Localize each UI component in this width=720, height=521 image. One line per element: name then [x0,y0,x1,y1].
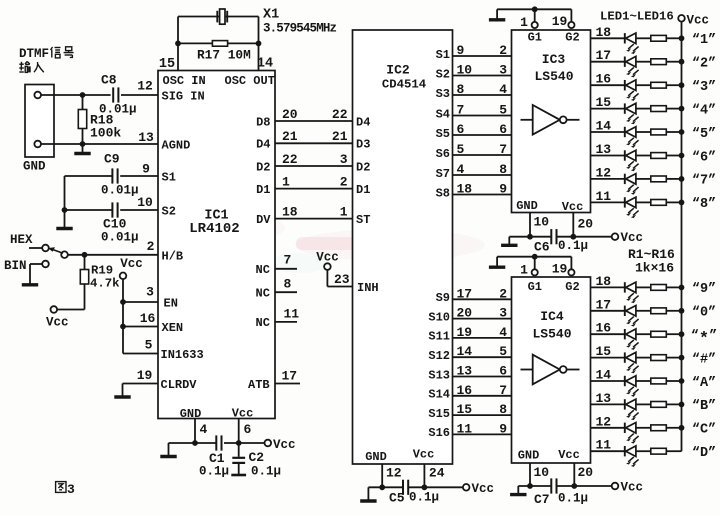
resistor R18 [82,95,84,110]
IC IC2 CD4514 body [353,30,453,464]
wire LED4 to R4 [636,108,651,110]
connector bottom terminal [34,141,41,148]
svg-text:20: 20 [578,217,594,232]
wire HEX contact stub [29,247,42,249]
svg-text:S1: S1 [162,171,176,185]
LED LED6 [624,150,626,160]
svg-text:13: 13 [457,364,473,379]
svg-text:2: 2 [340,174,348,189]
wire R10 to Vcc bus [666,310,681,312]
svg-text:11: 11 [457,421,473,436]
resistor R16 [651,448,667,454]
svg-text:S2: S2 [436,67,450,81]
wire IC output pin 17 row 2 [591,61,625,63]
wire pin 4 vertical [194,419,196,444]
Vcc terminal right of C1 [265,440,272,447]
svg-text:10: 10 [457,63,473,78]
svg-text:S14: S14 [428,388,450,402]
svg-text:“7”: “7” [692,174,716,189]
wire BIN stub [30,263,42,265]
svg-text:D8: D8 [256,115,270,129]
wire OSC OUT vertical pin 14 [258,17,260,71]
svg-text:14: 14 [596,368,612,383]
svg-text:15: 15 [596,95,612,110]
junction R18 bottom [80,141,86,147]
wire CLRDV line [123,383,159,385]
svg-text:21: 21 [332,129,348,144]
ground for decoupling [517,486,519,494]
inverter symbol bubble [560,116,567,123]
wire C5 horizontal left [368,486,402,488]
svg-text:16: 16 [596,72,612,87]
junction left of R17 [175,41,181,47]
label figure 3 (Chinese, hand-drawn) [56,482,66,493]
inverter symbol output line [567,119,580,121]
resistor R15 [651,425,667,431]
svg-text:22: 22 [332,107,348,122]
wire G1 vertical [534,9,536,21]
resistor R7 [651,176,667,182]
ground below R18 [82,144,84,153]
svg-text:4: 4 [200,422,208,437]
wire LED7 to R7 [636,178,651,180]
svg-text:S3: S3 [436,87,450,101]
wire R1 to Vcc bus [666,37,681,39]
svg-text:5: 5 [499,344,507,359]
svg-text:“4”: “4” [692,103,716,118]
svg-text:LED1~LED16: LED1~LED16 [600,10,674,24]
svg-text:“C”: “C” [692,423,716,438]
wire IC output pin 11 row 8 [591,201,625,203]
junction Vcc pin [571,483,577,489]
svg-text:19: 19 [552,262,568,277]
Vcc terminal for EN [120,273,127,280]
LED LED12 [624,352,626,362]
wire R6 to Vcc bus [666,155,681,157]
wire R2 to Vcc bus [666,61,681,63]
wire NC stub pin 11 [275,321,297,323]
wire decoupling horizontal left [518,485,551,487]
svg-text:S9: S9 [436,291,450,305]
svg-text:Vcc: Vcc [562,200,584,214]
svg-text:“3”: “3” [692,80,716,95]
svg-text:HEX: HEX [10,233,33,247]
junction R12 at Vcc bus [679,355,685,361]
svg-text:22: 22 [282,152,298,167]
svg-text:S5: S5 [436,127,450,141]
svg-text:Vcc: Vcc [120,257,143,271]
wire Vcc pin vertical [572,213,574,237]
wire S14 line [453,395,512,397]
svg-text:S7: S7 [436,167,450,181]
wire S10 line [453,318,512,320]
svg-text:NC: NC [256,287,270,301]
wire S4 line [453,115,512,117]
svg-text:3: 3 [67,482,75,497]
LED LED14 [624,399,626,409]
svg-text:0.01μ: 0.01μ [101,184,139,198]
svg-text:S15: S15 [428,407,450,421]
wire D2-D2 data line [275,165,353,167]
svg-text:11: 11 [596,189,612,204]
svg-text:100k: 100k [90,126,121,141]
svg-text:11: 11 [596,438,612,453]
svg-text:7: 7 [284,253,292,268]
svg-text:G2: G2 [565,280,579,294]
wire LED12 to R12 [636,357,651,359]
svg-text:G1: G1 [528,280,542,294]
svg-text:“D”: “D” [692,446,716,461]
capacitor C9 [111,168,113,183]
svg-text:3: 3 [146,285,154,300]
wire SIG IN line right part [121,94,158,96]
wire R3 to Vcc bus [666,84,681,86]
svg-text:6: 6 [499,364,507,379]
wire INH vertical [326,270,328,287]
IC IC4 LS540 body [512,277,591,463]
Vcc terminal for decoupling [612,483,619,490]
wire G1/G2 enable line [497,256,571,258]
junction S2 line [62,207,68,213]
svg-text:13: 13 [138,130,154,145]
wire Vcc pin vertical [573,463,575,486]
wire S12 line [453,356,512,358]
wire IC output pin 18 row 1 [591,37,625,39]
svg-text:OSC IN: OSC IN [163,74,206,88]
wire S11 line [453,337,512,339]
junction R19 top [82,252,88,258]
wire G2 vertical [570,257,572,269]
svg-text:1: 1 [282,174,290,189]
wire S2 line right part [120,209,158,211]
wire XEN line [123,326,158,328]
resistor R14 [651,402,667,408]
wire C1 horizontal right [224,442,265,444]
svg-text:20: 20 [282,107,298,122]
svg-text:Vcc: Vcc [232,407,254,421]
svg-text:INH: INH [357,281,379,295]
svg-text:0.1μ: 0.1μ [199,465,229,479]
svg-text:Vcc: Vcc [621,231,644,245]
wire IC2 pin 12 vertical [381,464,383,487]
wire IC output pin 16 row 3 [591,84,625,86]
wire R5 to Vcc bus [666,131,681,133]
svg-text:15: 15 [159,57,175,72]
svg-text:3: 3 [340,152,348,167]
svg-text:C5: C5 [389,491,405,506]
Vcc terminal top right [678,15,685,22]
LED LED9 [624,282,626,292]
junction R3 at Vcc bus [679,82,685,88]
wire C5 horizontal right [409,486,463,488]
svg-text:IC4: IC4 [540,309,564,324]
capacitor C10 [111,202,113,217]
resistor R19 [84,255,86,270]
wire LED16 to R16 [636,450,651,452]
svg-text:4.7k: 4.7k [90,277,120,291]
wire S1 line [453,55,512,57]
junction R14 at Vcc bus [679,402,685,408]
svg-text:19: 19 [552,14,568,29]
ground below S1/S2 [64,226,66,229]
junction Vcc pin [570,234,576,240]
svg-text:9: 9 [457,43,465,58]
junction pin6 [236,440,242,446]
junction R2 at Vcc bus [679,59,685,65]
junction XEN [120,324,126,330]
svg-text:ST: ST [356,213,370,227]
svg-text:IC2: IC2 [386,63,410,78]
wire IN1633 line [123,353,158,355]
wire DV-ST data line [275,218,353,220]
svg-text:17: 17 [457,286,473,301]
svg-text:C2: C2 [249,450,265,465]
svg-text:“1”: “1” [692,33,716,48]
junction pin4 [192,440,198,446]
svg-text:OSC OUT: OSC OUT [225,74,275,88]
svg-text:S13: S13 [428,368,450,382]
wire G1/G2 enable line [497,8,571,10]
svg-text:19: 19 [137,368,153,383]
capacitor C5 [402,480,404,495]
svg-text:GND: GND [516,199,538,213]
resistor R9 [651,285,667,291]
svg-text:SIG IN: SIG IN [162,90,205,104]
wire LED5 to R5 [636,131,651,133]
wire ATB stub [275,383,300,385]
svg-text:3.579545MHz: 3.579545MHz [263,22,337,36]
svg-text:6: 6 [499,122,507,137]
svg-text:D4: D4 [256,138,270,152]
G2 inverting pin circle [568,22,574,28]
junction R11 at Vcc bus [679,331,685,337]
svg-text:Vcc: Vcc [558,448,580,462]
wire Vcc-EN vertical [122,279,124,353]
wire LED10 to R10 [636,310,651,312]
wire IC output pin 13 row 14 [591,403,625,405]
wire IC output pin 18 row 9 [591,286,625,288]
svg-text:G2: G2 [565,31,579,45]
svg-text:D4: D4 [356,115,370,129]
junction GND pin [527,234,533,240]
svg-text:IC3: IC3 [542,52,566,67]
svg-text:DV: DV [256,213,271,227]
svg-text:12: 12 [596,414,612,429]
resistor R3 [651,82,667,88]
resistor R8 [651,200,667,206]
wire S6 line [453,154,512,156]
svg-text:8: 8 [284,277,292,292]
Vcc terminal for decoupling [612,233,619,240]
svg-text:3: 3 [499,306,507,321]
G1 inverting pin circle [532,22,538,28]
svg-text:G1: G1 [528,31,542,45]
svg-text:Vcc: Vcc [273,438,296,452]
wire SIG IN line left part [41,94,111,96]
wire IC output pin 14 row 5 [591,131,625,133]
wire NC stub pin 7 [275,268,297,270]
wire CLRDV down [122,384,124,396]
inverter symbol bubble [560,366,567,373]
svg-text:10: 10 [137,195,153,210]
crystal X1 [216,11,218,23]
resistor R17 [212,41,227,47]
capacitor C2 (to ground) [238,443,240,457]
svg-text:12: 12 [596,165,612,180]
svg-text:13: 13 [596,391,612,406]
wire R12 to Vcc bus [666,357,681,359]
svg-text:“5”: “5” [692,127,716,142]
svg-text:0.1μ: 0.1μ [558,492,588,506]
svg-text:CD4514: CD4514 [382,78,427,92]
svg-text:C7: C7 [534,492,550,507]
svg-text:9: 9 [142,162,150,177]
wire R7 to Vcc bus [666,178,681,180]
ground for decoupling [508,237,510,245]
svg-text:Vcc: Vcc [413,448,435,462]
junction R15 at Vcc bus [679,425,685,431]
LED LED10 [624,306,626,316]
svg-text:S12: S12 [428,349,450,363]
wire R14 to Vcc bus [666,403,681,405]
LED LED11 [624,329,626,339]
svg-text:2: 2 [499,43,507,58]
svg-text:LS540: LS540 [534,69,573,84]
junction R8 at Vcc bus [679,200,685,206]
capacitor C1 [215,435,217,450]
wire Vcc bus vertical [681,22,683,452]
svg-text:“A”: “A” [692,376,716,391]
svg-text:9: 9 [499,182,507,197]
inverter symbol triangle [533,105,560,135]
svg-text:C6: C6 [534,240,550,255]
svg-text:5: 5 [499,103,507,118]
svg-text:NC: NC [256,263,270,277]
svg-text:D2: D2 [256,160,270,174]
svg-text:S4: S4 [436,107,450,121]
resistor R1 [651,35,667,41]
wire IC output pin 16 row 11 [591,333,625,335]
svg-text:14: 14 [457,344,473,359]
svg-text:H/B: H/B [162,250,184,264]
wire LED11 to R11 [636,333,651,335]
junction R1 at Vcc bus [679,35,685,41]
wire IC output pin 15 row 4 [591,108,625,110]
wire LED1 to R1 [636,37,651,39]
svg-text:R17 10M: R17 10M [197,48,251,63]
ground below CLRDV [122,395,124,398]
ground left of C5 [367,487,369,500]
svg-text:2: 2 [147,239,155,254]
wire LED9 to R9 [636,286,651,288]
connector top terminal [34,92,41,99]
IC IC1 LR4102 body [158,71,275,419]
wire IC output pin 13 row 6 [591,155,625,157]
svg-text:Vcc: Vcc [472,482,495,496]
capacitor C6 [550,229,552,244]
wire S1 line left part [65,175,113,177]
wire R16 to Vcc bus [666,450,681,452]
svg-text:14: 14 [257,57,273,72]
junction R5 at Vcc bus [679,129,685,135]
svg-text:5: 5 [145,338,153,353]
svg-text:10: 10 [534,465,550,480]
svg-text:7: 7 [457,103,465,118]
wire R15 to Vcc bus [666,427,681,429]
svg-text:6: 6 [244,422,252,437]
resistor R5 [651,129,667,135]
svg-text:4: 4 [499,82,507,97]
svg-text:3: 3 [499,63,507,78]
svg-text:8: 8 [499,402,507,417]
svg-text:9: 9 [499,421,507,436]
svg-text:“6”: “6” [692,150,716,165]
svg-text:5: 5 [457,142,465,157]
wire S2 line [453,75,512,77]
wire GND pin vertical [529,463,531,486]
LED LED8 [624,197,626,207]
wire S7 line [453,174,512,176]
wire OSC IN vertical pin 15 [177,17,179,71]
wire S15 line [453,414,512,416]
svg-text:19: 19 [457,325,473,340]
wire IC output pin 12 row 15 [591,427,625,429]
svg-text:6: 6 [457,122,465,137]
svg-text:14: 14 [596,119,612,134]
svg-text:4: 4 [457,162,465,177]
svg-text:7: 7 [499,142,507,157]
inverter symbol input line [521,369,533,371]
svg-text:X1: X1 [263,8,279,23]
ground for enable line [496,257,498,267]
svg-text:D1: D1 [256,183,270,197]
svg-text:R19: R19 [91,264,113,278]
svg-text:0.1μ: 0.1μ [251,465,281,479]
LED LED13 [624,376,626,386]
ground for enable line [496,9,498,18]
svg-text:1k×16: 1k×16 [635,261,674,276]
LED LED1 [624,33,626,43]
svg-text:LS540: LS540 [532,327,571,342]
svg-text:“8”: “8” [692,197,716,212]
svg-text:“9”: “9” [692,282,716,297]
resistor R4 [651,106,667,112]
resistor R11 [651,331,667,337]
svg-text:17: 17 [596,48,612,63]
svg-text:17: 17 [282,369,298,384]
connector DTMF input [25,85,54,158]
ground below BIN [29,282,31,285]
svg-text:S2: S2 [162,205,176,219]
wire LED3 to R3 [636,84,651,86]
Vcc terminal for INH [324,263,331,270]
svg-text:24: 24 [429,466,445,481]
svg-text:S1: S1 [436,48,450,62]
svg-text:GND: GND [23,160,46,174]
svg-text:20: 20 [578,465,594,480]
svg-text:17: 17 [596,297,612,312]
label input (Chinese, hand-drawn) [19,62,44,73]
wire pin 6 vertical [238,419,240,444]
svg-text:16: 16 [596,321,612,336]
switch HEX contact [42,245,49,252]
svg-text:21: 21 [282,129,298,144]
svg-text:C10: C10 [103,217,127,232]
svg-text:“#”: “#” [692,352,716,367]
svg-text:16: 16 [140,311,156,326]
wire IC2 pin 24 vertical [423,464,425,487]
svg-text:EN: EN [164,297,178,311]
